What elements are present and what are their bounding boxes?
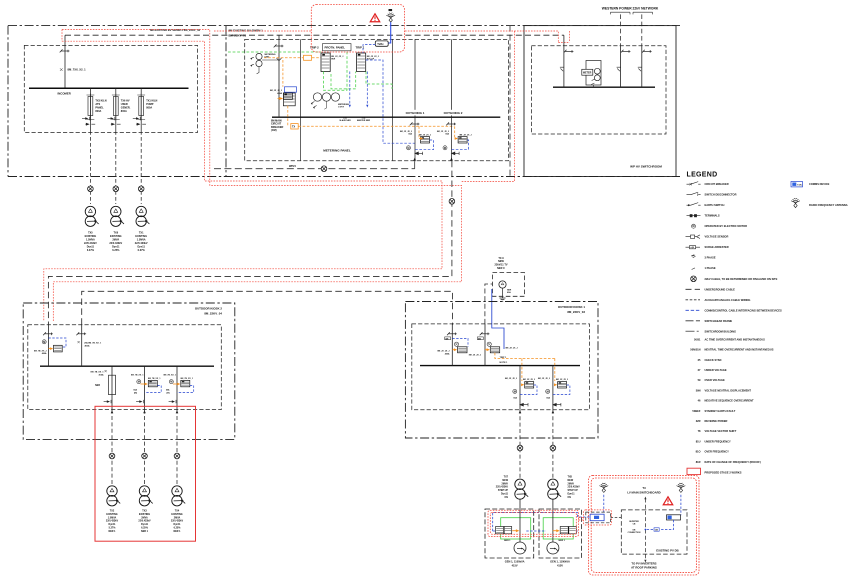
relay outgoing 2	[458, 137, 467, 143]
circuit breaker outgoing 2	[446, 122, 456, 125]
svg-text:TX: TX	[292, 126, 295, 129]
svg-text:TxRx: TxRx	[377, 42, 384, 46]
svg-text:RATE OF CHANGE OF FREQUENCY (R: RATE OF CHANGE OF FREQUENCY (ROCOF)	[705, 460, 761, 464]
svg-text:8M_JX_JX_J: 8M_JX_JX_J	[506, 348, 518, 350]
outgoing feeder 1 line	[414, 39, 416, 168]
protection relay TRIP1	[357, 53, 366, 72]
svg-text:6.37%: 6.37%	[87, 249, 95, 252]
svg-text:50N/51N: 50N/51N	[690, 348, 700, 352]
legend radio frequency antenna	[791, 198, 800, 207]
legend switchgear frame	[686, 320, 701, 322]
svg-text:8M_7B_XX_1: 8M_7B_XX_1	[91, 372, 105, 374]
svg-text:TRIP 1: TRIP 1	[500, 357, 508, 359]
motor symbol outgoing 2	[443, 146, 447, 150]
orange junction box	[304, 55, 312, 60]
orange arrow into main breaker relay	[278, 97, 283, 99]
svg-text:OUTDOOR KIOSK 1: OUTDOOR KIOSK 1	[558, 305, 586, 309]
svg-text:NEGATIVE SEQUENCE OVERCURRENT: NEGATIVE SEQUENCE OVERCURRENT	[705, 399, 755, 403]
feeder TX1 (SWRM2)	[133, 88, 158, 131]
legend 3 phase	[691, 255, 695, 258]
transformer TX5	[85, 206, 98, 226]
svg-text:3 PHASE: 3 PHASE	[705, 256, 716, 260]
proposed works outline generators (red)	[488, 510, 584, 536]
bus kiosk 2	[40, 365, 214, 367]
label INVERTER CB	[628, 521, 641, 534]
kiosk 2 feeder 3	[164, 366, 194, 409]
svg-text:800A: 800A	[146, 107, 152, 110]
svg-text:BM_22KV_01: BM_22KV_01	[229, 34, 247, 38]
svg-text:8M_JX_JX_J: 8M_JX_JX_J	[419, 134, 431, 136]
svg-text:8M EXISTING BV SWRM 1: 8M EXISTING BV SWRM 1	[229, 29, 264, 33]
svg-text:EXISTING PV DB: EXISTING PV DB	[656, 548, 678, 552]
svg-text:(M): (M)	[134, 393, 137, 395]
underground cable outgoing 2 to kiosk 2 incomer 1	[48, 161, 452, 325]
svg-text:LV MAIN SWITCHBOARD: LV MAIN SWITCHBOARD	[627, 490, 660, 494]
switchroom building left wall	[7, 26, 9, 177]
svg-text:(CM): (CM)	[271, 129, 277, 132]
proposed works cable (red) run A	[44, 30, 570, 322]
svg-text:EARTH SWITCH: EARTH SWITCH	[705, 203, 725, 207]
junction arrows kiosk 1 exits	[519, 410, 555, 413]
svg-text:CIRCUIT BREAKER: CIRCUIT BREAKER	[705, 182, 729, 186]
svg-text:800A: 800A	[95, 110, 101, 113]
svg-text:NER 1: NER 1	[504, 540, 511, 542]
legend comms control cable	[686, 309, 701, 311]
comms device box	[375, 41, 388, 46]
generator 1 enclosure	[485, 509, 534, 558]
svg-text:NOTE 1: NOTE 1	[500, 362, 509, 364]
comms wire antenna to comms box	[603, 495, 605, 512]
kiosk 1 outgoing 2	[552, 366, 554, 410]
node: cable TBD outgoing 2	[449, 199, 455, 205]
svg-text:PROPOSED STAGE 2 WORKS: PROPOSED STAGE 2 WORKS	[705, 470, 742, 474]
kiosk 2 NER feeder	[91, 366, 116, 409]
warning triangle LV	[663, 497, 672, 505]
node: cable TBD marks kiosk 2	[109, 453, 115, 459]
comms device box LV	[590, 514, 604, 521]
feeder TX6 (SWRM2)	[107, 88, 130, 131]
svg-text:SLAVE NER: SLAVE NER	[339, 119, 351, 122]
svg-text:50A: 50A	[166, 389, 170, 392]
comms loop through generator panels (blue)	[493, 513, 590, 531]
switchgear frame WP	[531, 46, 666, 134]
legend operated by electric motor	[692, 224, 696, 228]
blue NER slave wire	[349, 72, 351, 105]
kiosk 1 incomer 2	[484, 324, 486, 366]
svg-text:81U: 81U	[696, 439, 701, 443]
wall between SWRM2 and SWRM1 buildings	[225, 26, 227, 177]
blue NER master wire	[366, 72, 368, 105]
labels TX2	[106, 510, 119, 533]
svg-text:50BEF: 50BEF	[692, 409, 700, 413]
svg-text:OUTGOING 2: OUTGOING 2	[444, 111, 463, 115]
svg-text:81O: 81O	[696, 450, 701, 454]
feeder TX5 (SWRM2)	[82, 88, 107, 131]
svg-text:8M_JX_JX_J: 8M_JX_JX_J	[556, 379, 568, 381]
svg-text:INCOMER: INCOMER	[58, 92, 71, 96]
svg-text:OPERATED BY ELECTRIC MOTOR: OPERATED BY ELECTRIC MOTOR	[705, 224, 748, 228]
kiosk 1 incomer 1	[451, 324, 453, 366]
PV meter box	[667, 515, 681, 520]
svg-text:SWITCHROOM BUILDING: SWITCHROOM BUILDING	[705, 329, 737, 333]
circuit breaker SWRM2 incomer	[60, 49, 70, 52]
proposed works outline comms device (red)	[584, 510, 612, 525]
comms wire antenna to comms device	[388, 22, 391, 43]
transformer TX8	[548, 479, 561, 499]
legend 22kV cable TBD	[691, 276, 697, 282]
kiosk 2 building outline	[23, 303, 235, 439]
svg-text:50A: 50A	[445, 133, 449, 136]
svg-text:81R: 81R	[696, 460, 701, 464]
TX9 enclosure	[493, 273, 525, 297]
bus SWRM2	[29, 87, 189, 89]
svg-text:400A: 400A	[85, 344, 90, 347]
gen 2 controller boxes	[553, 527, 576, 543]
svg-text:SURGE ARRESTER: SURGE ARRESTER	[705, 245, 729, 249]
svg-text:NER 1: NER 1	[141, 530, 149, 533]
svg-text:VOLTAGE SENSOR: VOLTAGE SENSOR	[705, 235, 729, 239]
comms wire TX9 NER to kiosk 1	[492, 289, 504, 349]
comms wire comms box to PV DB	[611, 517, 622, 519]
legend surge arrester	[686, 246, 701, 249]
node: cable TBD marks kiosk 1	[517, 445, 523, 451]
metering CT circles group	[311, 93, 340, 109]
warning triangle	[370, 14, 379, 22]
wire: SWRM2 incomer	[64, 35, 66, 88]
svg-text:CONNECTION: CONNECTION	[628, 532, 641, 534]
svg-text:22kV CABLE, TO BE DETERMINED O: 22kV CABLE, TO BE DETERMINED OR FINALIZE…	[705, 277, 778, 281]
svg-text:8M_JX_JX_J: 8M_JX_JX_J	[437, 351, 449, 353]
svg-text:32R: 32R	[696, 419, 701, 423]
svg-text:UNDER FREQUENCY: UNDER FREQUENCY	[705, 439, 731, 443]
svg-text:50/51: 50/51	[694, 337, 701, 341]
blue loop outgoing 1	[415, 140, 434, 150]
svg-text:8KR: 8KR	[331, 59, 336, 61]
proposed works outline LV area (red, double)	[589, 475, 699, 575]
label OUTGOING 1	[402, 110, 428, 116]
svg-text:METERING PANEL: METERING PANEL	[323, 149, 351, 153]
wire TX8 to gen 2 panel	[552, 500, 554, 511]
svg-text:6.25%: 6.25%	[112, 249, 120, 252]
wire: metering incomer	[278, 35, 280, 117]
svg-text:OVER FREQUENCY: OVER FREQUENCY	[705, 450, 730, 454]
svg-text:RADIO FREQUENCY ANTENNA: RADIO FREQUENCY ANTENNA	[809, 203, 848, 207]
svg-text:CB: CB	[655, 530, 659, 532]
legend proposed stage 2 works	[687, 468, 701, 474]
svg-text:300A: 300A	[99, 374, 104, 377]
svg-text:AUXILIARY/ANALOG CABLE WIRING: AUXILIARY/ANALOG CABLE WIRING	[705, 298, 751, 302]
comms wire to protection relay	[363, 45, 375, 53]
gen 2 feeder wire	[552, 511, 554, 542]
svg-text:(M) 8M_7B_XX_1: (M) 8M_7B_XX_1	[85, 342, 102, 344]
svg-text:VOLTAGE VECTOR SHIFT: VOLTAGE VECTOR SHIFT	[705, 429, 737, 433]
labels TX3	[138, 510, 151, 533]
circuit breaker outgoing 1	[410, 122, 420, 125]
svg-text:(M): (M)	[478, 338, 481, 340]
legend underground cable	[686, 288, 701, 290]
panel partition 2	[391, 39, 393, 160]
svg-text:50A: 50A	[513, 396, 517, 399]
switchroom building top wall	[8, 25, 680, 27]
relay outgoing 2 kiosk 1	[538, 378, 570, 406]
kiosk 2 incomer 1 relay group	[34, 338, 66, 355]
svg-text:STANDBY EARTH FAULT: STANDBY EARTH FAULT	[705, 409, 736, 413]
wire TX7 to gen 1 panel	[519, 500, 521, 511]
bus kiosk 1	[420, 365, 580, 367]
svg-text:NER C: NER C	[497, 267, 505, 270]
kiosk 2 feeder 2	[131, 366, 161, 409]
svg-text:AT ROOF PARKING: AT ROOF PARKING	[631, 566, 657, 570]
WP metering unit	[586, 61, 601, 88]
svg-text:MASTER NER: MASTER NER	[357, 119, 371, 122]
svg-text:AC TIME OVERCURRENT AND INSTAN: AC TIME OVERCURRENT AND INSTANTANEOUS	[705, 337, 766, 341]
svg-text:CT/VT: CT/VT	[338, 106, 345, 108]
svg-text:8M_JX_JX_J: 8M_JX_JX_J	[523, 379, 535, 381]
comms wire antenna 2 down	[680, 495, 682, 516]
earth switch outgoing 2	[452, 152, 460, 155]
generator G1	[514, 542, 526, 554]
svg-text:REVERSE POWER: REVERSE POWER	[705, 419, 728, 423]
legend terminals	[687, 215, 701, 217]
labels TX5	[84, 232, 97, 253]
underground cable kiosk1 to TX7 TX8	[519, 410, 521, 479]
svg-text:(M): (M)	[445, 338, 448, 340]
proposed stage 2 works box (kiosk 2 feeders)	[95, 406, 196, 541]
svg-text:PROTN. PANEL: PROTN. PANEL	[325, 46, 346, 50]
svg-text:50A: 50A	[408, 133, 412, 136]
legend auxiliary analog wiring	[686, 299, 701, 301]
svg-text:415V: 415V	[512, 563, 518, 567]
legend switchroom building	[686, 330, 701, 332]
legend voltage sensor	[686, 235, 701, 239]
labels TX6	[109, 232, 122, 253]
svg-text:VOLTAGE NEUTRAL DISPLACEMENT: VOLTAGE NEUTRAL DISPLACEMENT	[705, 388, 752, 392]
svg-text:GEN 1, 1100kVA: GEN 1, 1100kVA	[505, 559, 525, 563]
svg-text:415V: 415V	[557, 563, 563, 567]
svg-text:OUTGOING 1: OUTGOING 1	[406, 111, 425, 115]
orange trip trunk kiosk 1	[495, 353, 555, 381]
svg-text:8M_22KV_04: 8M_22KV_04	[204, 312, 222, 316]
svg-text:50A: 50A	[133, 389, 137, 392]
green analog wiring CT to relays	[228, 52, 392, 90]
radio antenna LV 1	[599, 483, 608, 492]
transformer TX2	[107, 486, 120, 506]
svg-text:(M): (M)	[167, 393, 170, 395]
svg-text:8M EXISTING BV SWRM 2 8M_22KV_: 8M EXISTING BV SWRM 2 8M_22KV_02	[150, 28, 201, 32]
terminals at SWRM2 feeder exits	[85, 123, 146, 125]
CT/VT metering circles	[251, 53, 280, 74]
orange auxiliary wiring: CT to relays	[264, 58, 454, 127]
svg-text:8M_7XX_X2_1: 8M_7XX_X2_1	[68, 68, 87, 72]
svg-text:COMMS/CONTROL CABLE INTERFACIN: COMMS/CONTROL CABLE INTERFACING BETWEEN …	[705, 308, 782, 312]
WP network feeder 2	[641, 14, 643, 45]
orange trip arrows to outgoing relays	[419, 126, 456, 138]
bus metering panel	[272, 116, 500, 118]
transformer TX6	[111, 206, 124, 226]
proposed works outline around RF equipment	[311, 5, 404, 53]
TX9 winding	[499, 281, 506, 288]
svg-text:60A: 60A	[507, 291, 511, 294]
underground cable kiosk 2 to kiosk 1 ring	[82, 291, 453, 325]
svg-text:WESTERN POWER 22kV NETWORK: WESTERN POWER 22kV NETWORK	[602, 7, 659, 11]
WP network feeder 1	[620, 14, 622, 45]
svg-text:NER 1: NER 1	[173, 530, 181, 533]
svg-text:CHECK SYNC: CHECK SYNC	[705, 358, 722, 362]
svg-text:8M_JX_JX_J: 8M_JX_JX_J	[469, 355, 481, 357]
gen 2 internal frame (green)	[543, 518, 573, 539]
protection relay TRIP2	[321, 53, 330, 72]
kiosk 1 building outline	[405, 302, 598, 439]
blue comms wire from comms box to relays	[366, 60, 415, 143]
labels TX4	[171, 510, 184, 533]
outgoing feeder 2 line	[451, 39, 453, 160]
legend switch disconnector	[687, 192, 701, 196]
switchgear frame kiosk 2	[28, 325, 222, 410]
svg-text:1 PHASE: 1 PHASE	[705, 266, 716, 270]
WP#4 cable run	[214, 168, 415, 170]
underground cable kiosk2 to TX2 TX3 TX4	[111, 410, 113, 486]
legend 1 phase	[692, 268, 695, 270]
svg-text:NER: NER	[95, 385, 100, 387]
kiosk 1 outgoing 1	[519, 366, 521, 410]
switchroom building bottom wall	[8, 176, 680, 178]
svg-text:8M_7B_XX_1: 8M_7B_XX_1	[148, 378, 161, 380]
svg-text:METER: METER	[583, 72, 592, 75]
legend comms device	[791, 182, 803, 187]
gen 1 controller boxes	[496, 527, 520, 543]
ground TX9	[500, 288, 506, 301]
switchgear frame metering panel	[245, 39, 509, 160]
svg-text:6.37%: 6.37%	[138, 249, 146, 252]
transformer TX4	[172, 486, 185, 506]
label TX 9	[494, 257, 507, 270]
svg-text:LEGEND: LEGEND	[687, 172, 718, 179]
svg-text:800A: 800A	[121, 110, 127, 113]
junction arrows metering exits	[413, 158, 452, 161]
svg-text:8M_7B_XX_1: 8M_7B_XX_1	[164, 374, 177, 376]
svg-text:OVER VOLTAGE: OVER VOLTAGE	[705, 378, 725, 382]
svg-text:50A: 50A	[362, 117, 366, 120]
svg-text:400A: 400A	[277, 92, 282, 95]
underground cable TX9 to kiosk 1	[485, 284, 493, 324]
legend circuit breaker	[687, 182, 701, 186]
svg-text:GEN 1, 1100kVA: GEN 1, 1100kVA	[550, 559, 570, 563]
svg-text:NEUTRAL TIME OVERCURRENT AND I: NEUTRAL TIME OVERCURRENT AND INSTANTANEO…	[705, 348, 774, 352]
svg-text:UNDERGROUND CABLE: UNDERGROUND CABLE	[705, 287, 736, 291]
junction arrows kiosk 2 exits	[111, 410, 179, 413]
svg-text:8M_22KV_03: 8M_22KV_03	[567, 310, 585, 314]
svg-text:NER 1: NER 1	[559, 540, 566, 542]
underground cable: SWRM2 feeders to transformers	[89, 131, 91, 204]
svg-text:SWITCH DISCONNECTOR: SWITCH DISCONNECTOR	[705, 193, 737, 197]
svg-text:8M_JX_JX_J: 8M_JX_JX_J	[459, 134, 471, 136]
node: cable TBD on WP#4	[321, 166, 327, 172]
svg-text:8M_7B_XX_1: 8M_7B_XX_1	[131, 374, 144, 376]
generator 2 enclosure	[539, 509, 582, 558]
comms device enclosure	[586, 512, 611, 523]
svg-text:SWITCHGEAR FRAME: SWITCHGEAR FRAME	[705, 319, 733, 323]
metering room right wall (dashed)	[509, 26, 511, 177]
svg-text:OUTDOOR KIOSK 2: OUTDOOR KIOSK 2	[195, 307, 223, 311]
svg-text:400A: 400A	[445, 352, 450, 355]
svg-text:T3: T3	[642, 486, 646, 490]
svg-text:COMMS DEVICE: COMMS DEVICE	[809, 182, 830, 186]
motor symbol outgoing 1	[407, 146, 411, 150]
transformer TX1	[136, 206, 149, 226]
switchgear frame SWRM2	[24, 45, 197, 132]
transformer TX3	[139, 486, 152, 506]
labels TX1	[135, 232, 148, 253]
PV DB enclosure	[621, 510, 687, 554]
labels TX7	[496, 476, 509, 499]
svg-text:8M_JX_JX_J: 8M_JX_JX_J	[538, 378, 550, 380]
transformer TX7	[515, 479, 528, 499]
svg-text:8M_7B_XX_1: 8M_7B_XX_1	[181, 378, 194, 380]
gen 1 internal frame (green)	[501, 518, 531, 539]
legend earth switch	[687, 203, 701, 207]
panel partition 1	[300, 39, 302, 160]
orange TX box on trip line	[291, 124, 298, 129]
svg-text:TERMINALS: TERMINALS	[705, 214, 720, 218]
generator G2	[547, 542, 559, 554]
radio antenna	[386, 13, 395, 22]
svg-text:50A: 50A	[343, 117, 347, 120]
earth switch outgoing 1	[415, 152, 423, 155]
main circuit breaker relay	[283, 87, 296, 106]
WP HV switchroom outline	[524, 26, 676, 177]
relay outgoing 1	[421, 137, 430, 143]
svg-text:50A: 50A	[546, 396, 550, 399]
WP feeder from metering	[563, 35, 565, 87]
relay outgoing 1 kiosk 1	[505, 378, 537, 406]
underground cable WP to metering to SWRM2	[65, 34, 564, 36]
svg-text:NER 1: NER 1	[108, 530, 116, 533]
svg-text:UNDER VOLTAGE: UNDER VOLTAGE	[705, 368, 727, 372]
node: cable TBD marks	[88, 186, 94, 192]
bus WP	[553, 86, 655, 88]
svg-text:WP#4: WP#4	[289, 165, 296, 168]
wire: LV switchboard feeder (dashed center)	[644, 499, 646, 561]
svg-text:400A: 400A	[42, 352, 47, 355]
switchgear frame kiosk 1	[412, 324, 590, 410]
svg-text:WP HV SWITCHROOM: WP HV SWITCHROOM	[630, 164, 662, 168]
kiosk 2 incomer 1	[47, 325, 49, 366]
kiosk 2 incomer 2	[81, 325, 83, 366]
comms wire PV meter loop	[660, 520, 674, 530]
label 8M MAIN CIRCUIT BREAKER	[271, 120, 284, 133]
labels TX8	[568, 476, 581, 499]
circuit breaker metering incomer	[274, 44, 284, 47]
label OUTGOING 2	[440, 110, 466, 116]
radio antenna LV 2	[677, 483, 686, 492]
gen 1 feeder wire	[519, 511, 521, 542]
PROTN PANEL box	[323, 44, 352, 51]
svg-text:8M_JX_JX_J: 8M_JX_JX_J	[505, 378, 517, 380]
svg-text:59N: 59N	[696, 388, 701, 392]
blue loop outgoing 2	[452, 140, 469, 149]
network brackets	[611, 12, 653, 14]
